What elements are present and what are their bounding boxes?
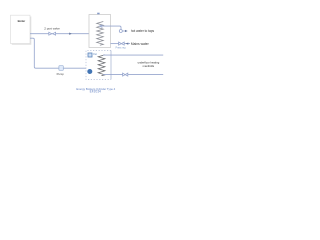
- wire: underfloor return line: [103, 74, 123, 76]
- wire: mains water inlet: [111, 43, 119, 45]
- svg-text:Out: Out: [93, 53, 97, 56]
- wire: return line continued: [128, 74, 163, 76]
- svg-text:Press reg: Press reg: [116, 46, 127, 49]
- manifold dashed enclosure: [86, 51, 111, 80]
- cylinder tank: [89, 15, 111, 48]
- svg-text:manifolds: manifolds: [143, 64, 155, 68]
- open arrow at draw-off start: [99, 25, 102, 28]
- valve: outlet circle valve: [119, 30, 122, 33]
- flow arrow on pipe: [69, 33, 72, 35]
- svg-text:Pump: Pump: [57, 72, 65, 76]
- wire: underfloor flow line: [103, 54, 163, 56]
- node: cylinder top connection stub: [97, 13, 99, 15]
- arrow to taps: [125, 30, 128, 32]
- node: manifold flow connection: [88, 53, 92, 57]
- coil: manifold heat exchanger: [98, 55, 105, 76]
- svg-text:underfloor heating: underfloor heating: [138, 61, 160, 65]
- valve: return line valve: [123, 73, 128, 76]
- boiler shadow: [12, 17, 32, 45]
- valve: pressure reducing valve: [119, 42, 125, 45]
- wire: hot water draw-off pipe: [99, 26, 121, 29]
- wire: to taps: [122, 30, 125, 32]
- svg-text:Mains water: Mains water: [131, 42, 150, 46]
- wire: boiler flow pipe to cylinder: [30, 33, 89, 35]
- svg-text:2 port valve: 2 port valve: [44, 27, 60, 31]
- wire: mains segment: [124, 43, 130, 45]
- arrow mains (pointing left): [126, 43, 129, 45]
- manifold enclosure right edge: [110, 51, 112, 80]
- svg-text:EF2014: EF2014: [90, 90, 101, 94]
- boiler: [11, 15, 31, 43]
- coil: cylinder heat exchanger: [97, 22, 104, 46]
- svg-text:hot water to taps: hot water to taps: [131, 29, 155, 33]
- wire: boiler return pipe down and across: [30, 38, 86, 68]
- pump P1: [59, 66, 63, 71]
- svg-text:Boiler: Boiler: [18, 19, 26, 23]
- 2 port valve: [49, 32, 56, 35]
- manifold pump circle: [87, 69, 92, 74]
